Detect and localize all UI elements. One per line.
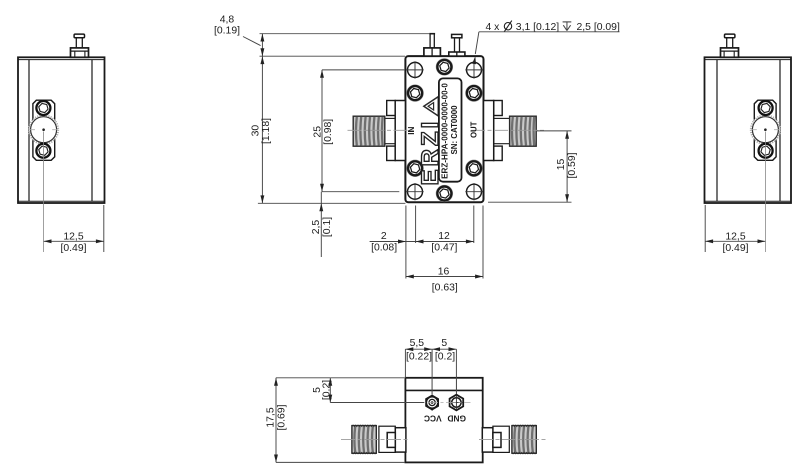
right view centerline <box>764 132 766 253</box>
svg-text:[0.98]: [0.98] <box>323 119 334 145</box>
IN connector (left SMA) <box>348 101 417 161</box>
svg-text:25: 25 <box>313 126 324 138</box>
svg-text:[0.69]: [0.69] <box>277 404 288 430</box>
left view dimension 12,5 <box>44 205 104 254</box>
bottom view left SMA connector <box>341 425 410 454</box>
svg-text:12: 12 <box>438 231 450 242</box>
bottom view body <box>405 378 482 463</box>
svg-text:[0.22]: [0.22] <box>406 352 432 363</box>
right view body <box>705 57 792 203</box>
dim 25 <box>313 70 405 192</box>
OUT connector (right SMA) <box>471 101 544 161</box>
right view dimension lines 12,5 <box>704 205 706 252</box>
dim 30 <box>250 56 405 203</box>
screw top-center <box>436 59 453 76</box>
svg-text:[0.2]: [0.2] <box>322 380 333 400</box>
screw left lower <box>407 160 424 177</box>
svg-text:GND: GND <box>447 413 466 423</box>
dim 5 (left vertical) <box>312 378 424 403</box>
svg-text:IN: IN <box>407 127 416 135</box>
svg-text:[0.2]: [0.2] <box>435 352 455 363</box>
left view connector flange plate <box>33 100 55 160</box>
svg-text:5,5: 5,5 <box>410 338 425 349</box>
dim 12 <box>406 206 474 254</box>
svg-text:OUT: OUT <box>470 121 479 138</box>
IN thread <box>353 116 385 146</box>
DC pin left (VCC) <box>424 34 441 56</box>
svg-text:[0.47]: [0.47] <box>431 242 457 253</box>
right view DC pin <box>721 34 739 57</box>
dim 15 <box>488 131 578 202</box>
left view centerline <box>43 132 45 253</box>
annotation 4 x holes <box>472 21 620 65</box>
svg-text:2,5: 2,5 <box>311 220 322 235</box>
svg-text:5: 5 <box>441 338 447 349</box>
svg-text:15: 15 <box>556 159 567 171</box>
left view hex nut top <box>36 101 50 115</box>
pins centerline <box>410 402 471 404</box>
left view hex nut bottom <box>36 144 50 158</box>
dim 4,8 <box>214 15 430 57</box>
bottom view right SMA connector <box>479 425 548 454</box>
VCC pin <box>425 378 439 411</box>
svg-text:[0.59]: [0.59] <box>567 152 578 178</box>
dim 2 <box>370 231 406 253</box>
screw left upper <box>407 85 424 102</box>
right view coax center circle <box>751 115 780 144</box>
screw right lower <box>466 160 483 177</box>
svg-text:[0.1]: [0.1] <box>322 217 333 237</box>
svg-text:12,5: 12,5 <box>63 231 83 242</box>
right view hex nut bottom <box>759 144 773 158</box>
svg-text:VCC: VCC <box>424 413 442 423</box>
mounting hole top-left <box>406 61 423 78</box>
svg-text:[0.08]: [0.08] <box>371 242 397 253</box>
dim 17,5 <box>265 378 405 463</box>
mounting hole top-right <box>465 61 482 78</box>
right view hex nut top <box>759 101 773 115</box>
svg-text:16: 16 <box>438 267 450 278</box>
svg-text:4,8: 4,8 <box>220 15 235 26</box>
left view coax center circle <box>29 115 58 144</box>
svg-text:[0.49]: [0.49] <box>61 243 87 254</box>
screw right upper <box>466 85 483 102</box>
svg-text:17,5: 17,5 <box>265 407 276 427</box>
svg-text:[0.63]: [0.63] <box>432 283 458 294</box>
left view DC pin <box>71 34 89 57</box>
right view connector flange plate <box>754 100 776 160</box>
svg-text:[0.49]: [0.49] <box>723 243 749 254</box>
label plate <box>439 78 462 181</box>
svg-text:2: 2 <box>381 231 387 242</box>
front body <box>405 56 483 202</box>
dim 2,5 <box>311 192 333 257</box>
svg-text:12,5: 12,5 <box>725 231 745 242</box>
svg-text:ERZ-HPA-0000-0000-00-0: ERZ-HPA-0000-0000-00-0 <box>441 83 450 179</box>
svg-text:[0.19]: [0.19] <box>214 25 240 36</box>
left view body <box>18 57 105 203</box>
DC pin right (GND) <box>449 34 465 56</box>
dim 5 (pins) <box>432 338 456 394</box>
mounting hole bottom-right <box>465 183 482 200</box>
dim 16 <box>406 206 483 294</box>
screw bottom-center <box>436 185 453 202</box>
GND pin <box>450 378 464 411</box>
ERZIA logo <box>417 97 444 186</box>
OUT thread <box>510 116 537 146</box>
mounting hole bottom-left <box>406 183 423 200</box>
svg-text:30: 30 <box>250 125 261 137</box>
dim 5,5 <box>405 338 432 394</box>
svg-text:SN: CAT0000: SN: CAT0000 <box>450 105 459 155</box>
svg-text:[1.18]: [1.18] <box>261 118 272 144</box>
